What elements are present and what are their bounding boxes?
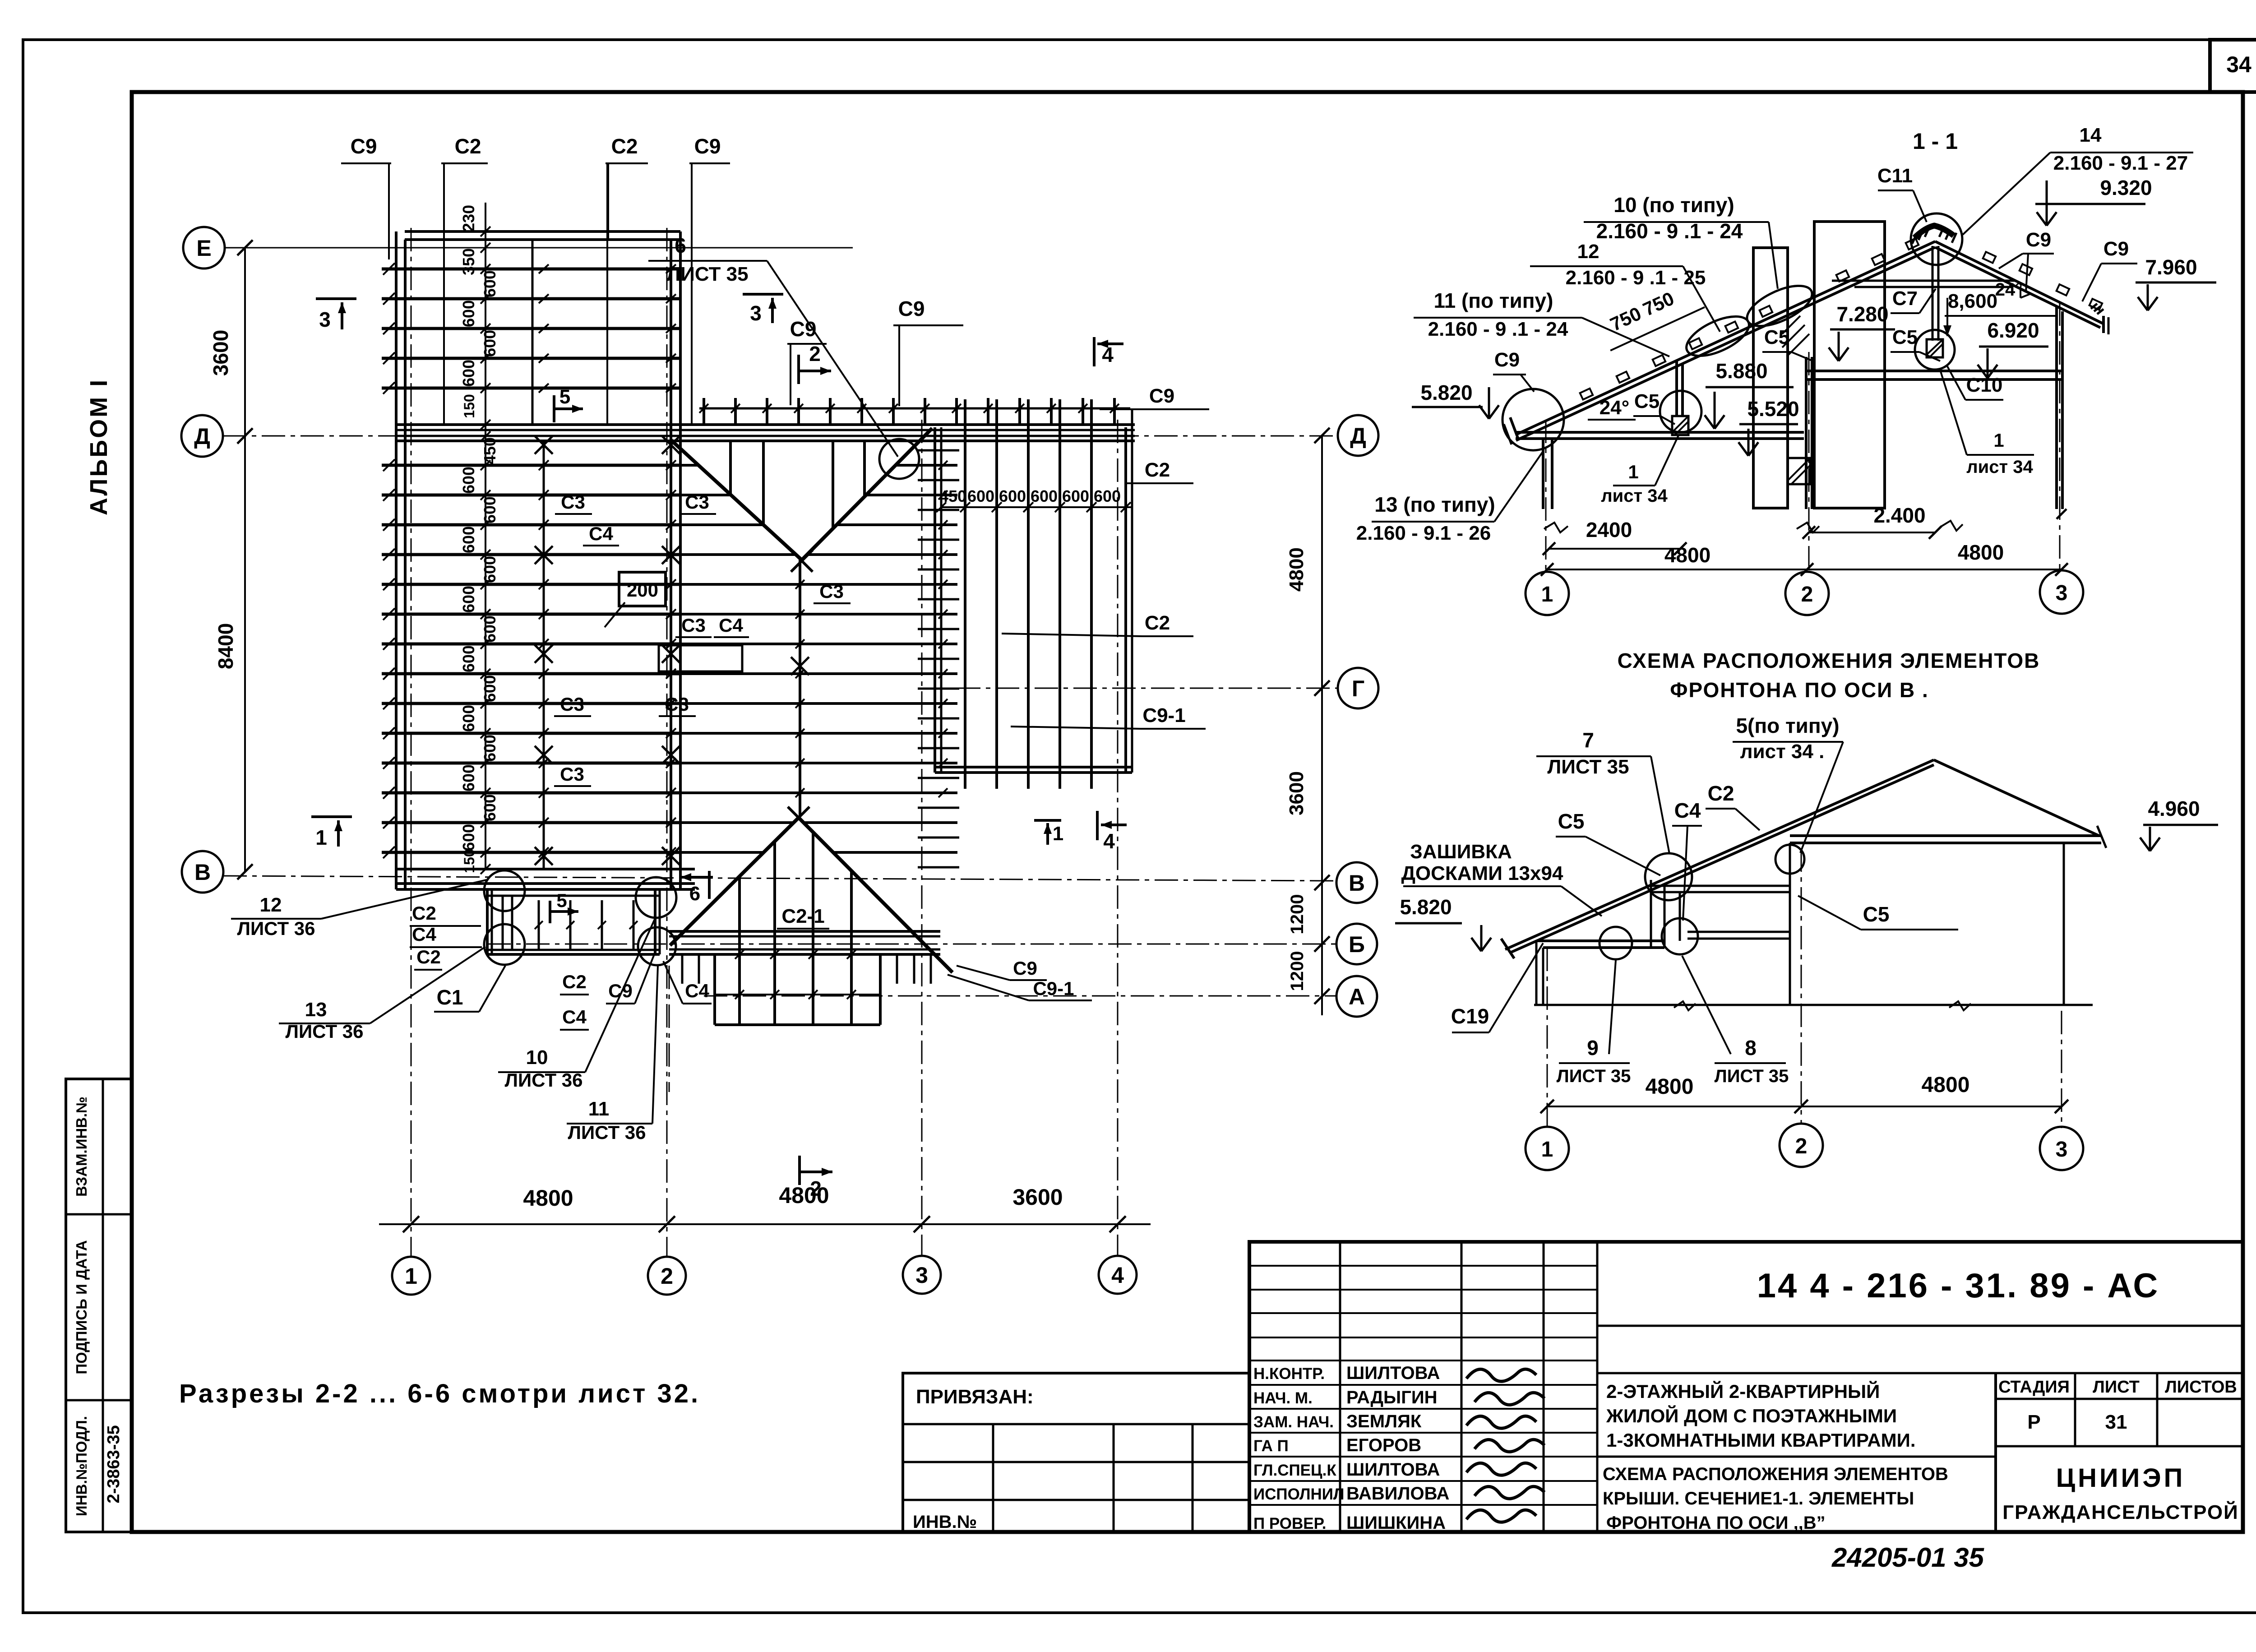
- svg-text:200: 200: [627, 579, 658, 601]
- elevation right wall: [2063, 843, 2065, 1005]
- title block TsNIIEP: [2002, 1463, 2239, 1523]
- svg-text:6: 6: [675, 234, 686, 257]
- svg-text:5: 5: [559, 386, 570, 408]
- svg-text:ЖИЛОЙ ДОМ С ПОЭТАЖНЫМИ: ЖИЛОЙ ДОМ С ПОЭТАЖНЫМИ: [1606, 1405, 1897, 1426]
- section axis 2 dash line: [1808, 352, 1810, 569]
- section dim 2.400 right: [1803, 504, 1942, 539]
- svg-text:4.960: 4.960: [2148, 797, 2200, 820]
- section ridge post: [1932, 246, 1934, 341]
- plan top label C2 right column: [606, 134, 648, 239]
- svg-text:11: 11: [588, 1098, 610, 1120]
- plan left block interior beam lines: [389, 163, 692, 869]
- plan small rectangle joist detail: [659, 645, 742, 671]
- title block main outline: [1249, 1242, 2243, 1532]
- plan section mark 2 upper: [799, 342, 831, 384]
- svg-text:350: 350: [459, 248, 478, 275]
- plan porch labels C2 C4 column: [410, 902, 482, 970]
- svg-text:С9: С9: [1013, 958, 1037, 979]
- section tall wall right of axis 2: [1814, 222, 1885, 508]
- svg-text:5(по типу): 5(по типу): [1736, 714, 1839, 737]
- section attic floor right part: [1806, 370, 2062, 372]
- section roof rafter left slope: [1516, 241, 1935, 435]
- plan eave overhang stubs above axis D: [699, 398, 1130, 425]
- section label C7: [1891, 287, 1936, 313]
- svg-text:С9-1: С9-1: [1142, 704, 1185, 727]
- elevation callout 5 po tipu list 34: [1733, 714, 1843, 853]
- section callout circle at peak C11: [1911, 213, 1962, 265]
- plan left block inner dimension chain 600 labels: [459, 203, 499, 874]
- section right slope fascia end: [2102, 316, 2105, 333]
- svg-text:лист 34: лист 34: [1601, 486, 1668, 506]
- svg-text:ГЛ.СПЕЦ.К: ГЛ.СПЕЦ.К: [1253, 1462, 1336, 1479]
- plan right wing bottom wall: [935, 766, 1132, 768]
- svg-text:ГРАЖДАНСЕЛЬСТРОЙ: ГРАЖДАНСЕЛЬСТРОЙ: [2002, 1500, 2239, 1523]
- svg-text:С3: С3: [560, 764, 584, 785]
- section label C5 right: [1891, 326, 1940, 361]
- svg-text:10 (по типу): 10 (по типу): [1613, 193, 1734, 217]
- axis circle V right: [1336, 862, 1377, 903]
- elevation axis 2 dash line: [1801, 848, 1802, 1124]
- section tie beam at 8.600: [1832, 280, 2016, 282]
- svg-text:С1: С1: [437, 986, 463, 1009]
- section axis circle 2: [1785, 572, 1829, 615]
- svg-text:3600: 3600: [1285, 771, 1308, 815]
- section label C9 left eave: [1493, 349, 1534, 392]
- svg-text:НАЧ. М.: НАЧ. М.: [1253, 1389, 1313, 1407]
- svg-text:600: 600: [999, 487, 1026, 505]
- section ground break marks: [1544, 509, 2066, 532]
- margin stamp table: [66, 1079, 132, 1532]
- svg-text:С9: С9: [351, 134, 377, 158]
- section callout circle at eave: [1502, 389, 1564, 450]
- svg-text:5.880: 5.880: [1715, 359, 1767, 383]
- svg-text:КРЫШИ. СЕЧЕНИЕ1-1. ЭЛЕМЕНТЫ: КРЫШИ. СЕЧЕНИЕ1-1. ЭЛЕМЕНТЫ: [1603, 1489, 1914, 1509]
- section callout 13 po tipu: [1356, 451, 1543, 544]
- axis circle 4 bottom: [1099, 1256, 1137, 1294]
- plan label C3 group: [554, 491, 851, 786]
- svg-text:600: 600: [459, 764, 478, 791]
- elevation label C19: [1451, 943, 1543, 1032]
- plan section mark 5 upper block: [554, 386, 583, 422]
- elevation callout circle upper: [1645, 853, 1692, 900]
- plan porch box below axis V: [487, 891, 660, 954]
- svg-text:СТАДИЯ: СТАДИЯ: [1998, 1378, 2070, 1397]
- axis circle D left: [181, 415, 223, 457]
- svg-text:4800: 4800: [779, 1183, 829, 1208]
- plan middle block joists horizontal: [680, 461, 957, 852]
- svg-text:3: 3: [2056, 1138, 2068, 1161]
- svg-text:С4: С4: [562, 1006, 587, 1027]
- plan valley apex x-mark: [791, 550, 813, 572]
- svg-text:С4: С4: [412, 924, 436, 945]
- svg-text:С5: С5: [1892, 326, 1918, 348]
- svg-text:4800: 4800: [1958, 541, 2004, 564]
- svg-text:3600: 3600: [1012, 1185, 1063, 1210]
- svg-text:С3: С3: [681, 615, 706, 636]
- svg-text:лист 34 .: лист 34 .: [1740, 740, 1825, 763]
- svg-text:Р: Р: [2027, 1411, 2040, 1433]
- svg-text:600: 600: [459, 645, 478, 672]
- plan label C9 at eave middle: [787, 317, 827, 405]
- section dim 2400 left: [1543, 518, 1687, 555]
- svg-text:24°: 24°: [1995, 280, 2023, 300]
- svg-text:9: 9: [1587, 1036, 1599, 1060]
- svg-text:С4: С4: [589, 523, 613, 544]
- svg-text:7: 7: [1582, 728, 1594, 752]
- axis circle 2 bottom: [648, 1257, 686, 1295]
- section hatch block at floor right: [1788, 458, 1810, 484]
- svg-text:600: 600: [1094, 487, 1121, 505]
- svg-text:С3: С3: [561, 491, 585, 513]
- axis circle 3 bottom: [903, 1256, 941, 1294]
- svg-text:С7: С7: [1892, 287, 1918, 310]
- svg-text:ЛИСТ 35: ЛИСТ 35: [666, 263, 748, 285]
- section label C5 left: [1633, 390, 1675, 424]
- plan callout circles at porch: [484, 870, 525, 911]
- svg-text:РАДЫГИН: РАДЫГИН: [1346, 1388, 1438, 1407]
- svg-text:150: 150: [461, 849, 477, 873]
- svg-text:150: 150: [461, 394, 477, 418]
- svg-text:230: 230: [459, 205, 478, 232]
- svg-text:4: 4: [1111, 1263, 1124, 1288]
- elevation callout circle left: [1600, 927, 1632, 959]
- section axis circle 1: [1526, 572, 1569, 615]
- svg-text:ВЗАМ.ИНВ.№: ВЗАМ.ИНВ.№: [73, 1097, 90, 1197]
- elevation lean-to ceiling line: [1536, 939, 1664, 942]
- elevation right eave end cap: [2097, 826, 2106, 848]
- plan section mark 1 left: [311, 817, 352, 849]
- svg-text:С2: С2: [1145, 612, 1170, 634]
- svg-text:7.280: 7.280: [1836, 302, 1888, 326]
- section dim 8.600: [1943, 290, 2057, 336]
- svg-text:С9: С9: [1149, 385, 1174, 407]
- svg-text:Н.КОНТР.: Н.КОНТР.: [1253, 1365, 1325, 1383]
- elevation callout circle right: [1775, 845, 1804, 874]
- svg-text:Д: Д: [1350, 423, 1366, 449]
- svg-text:600: 600: [481, 615, 499, 643]
- svg-text:ЛИСТ 36: ЛИСТ 36: [286, 1021, 364, 1042]
- elevation axis circle 2: [1780, 1124, 1823, 1167]
- elevation axis circle 3: [2040, 1127, 2083, 1170]
- svg-text:600: 600: [967, 487, 994, 505]
- plan porch labels row below: [560, 952, 712, 1030]
- section axis 3 dash line: [2059, 302, 2061, 569]
- svg-text:С5: С5: [1863, 902, 1890, 926]
- svg-text:34: 34: [2226, 52, 2251, 77]
- svg-text:П РОВЕР.: П РОВЕР.: [1253, 1515, 1326, 1532]
- axis circle A right: [1336, 976, 1377, 1017]
- svg-text:1: 1: [1053, 823, 1063, 845]
- svg-text:5.820: 5.820: [1400, 895, 1452, 919]
- plan callout 10 list 36: [498, 918, 655, 1091]
- svg-text:2.400: 2.400: [1873, 504, 1925, 527]
- plan top label C9 right column: [689, 134, 730, 239]
- plan right wing vertical rafters: [965, 399, 1091, 789]
- svg-text:2: 2: [661, 1263, 673, 1289]
- svg-text:1200: 1200: [1287, 894, 1307, 935]
- svg-text:600: 600: [481, 735, 499, 762]
- elevation axis 1 dash line: [1547, 948, 1548, 1128]
- svg-text:С9: С9: [898, 297, 925, 320]
- elevation label zashivka doskami: [1401, 841, 1602, 916]
- section ridge unit hatch detail: [1912, 226, 1956, 244]
- svg-text:ВАВИЛОВА: ВАВИЛОВА: [1346, 1484, 1449, 1504]
- plan callout 13 list 36: [279, 947, 485, 1042]
- svg-text:С9: С9: [608, 980, 633, 1001]
- plan central ridge line below valley: [799, 560, 801, 817]
- section label C5 mid: [1762, 326, 1813, 361]
- svg-text:1 - 1: 1 - 1: [1913, 129, 1958, 154]
- plan hip rafter bottom left diagonal: [670, 818, 799, 945]
- plan section mark 4 upper: [1094, 337, 1123, 366]
- plan section mark 3 left: [316, 299, 356, 331]
- plan section mark 6 porch: [680, 871, 713, 905]
- svg-text:11 (по типу): 11 (по типу): [1434, 289, 1553, 312]
- section label C9 right slope: [1999, 229, 2054, 292]
- svg-text:600: 600: [459, 824, 478, 851]
- svg-text:4800: 4800: [523, 1185, 573, 1211]
- section callout 11 po tipu: [1414, 289, 1669, 356]
- plan gable vertical rafters inside V: [730, 441, 864, 528]
- plan right dimension chain 4800 3600 1200 1200: [1285, 428, 1330, 1015]
- svg-text:600: 600: [481, 330, 499, 357]
- svg-text:600: 600: [1062, 487, 1089, 505]
- section right wall axis 3: [2055, 307, 2058, 509]
- svg-text:ЛИСТ 36: ЛИСТ 36: [568, 1122, 646, 1143]
- svg-text:А: А: [1349, 984, 1365, 1009]
- svg-text:2: 2: [1795, 1134, 1808, 1158]
- elevation callout circle lower mid: [1662, 918, 1698, 954]
- svg-text:ЛИСТ 35: ЛИСТ 35: [1557, 1066, 1631, 1086]
- svg-text:ЛИСТ 35: ЛИСТ 35: [1715, 1066, 1789, 1086]
- plan section mark 11 lower: [1034, 820, 1063, 845]
- svg-text:6: 6: [689, 883, 700, 905]
- elevation left roof slope: [1505, 760, 1934, 949]
- svg-text:6.920: 6.920: [1987, 319, 2039, 342]
- elevation right roof slope: [1934, 760, 2099, 836]
- section callout 14: [1963, 124, 2193, 235]
- svg-text:31: 31: [2105, 1411, 2127, 1433]
- svg-text:С3: С3: [665, 694, 689, 715]
- plan valley rafter left diagonal: [671, 440, 802, 560]
- svg-text:С3: С3: [819, 581, 844, 602]
- plan left block rafters horizontal: [382, 263, 680, 858]
- elevation axis circle 1: [1526, 1127, 1569, 1170]
- plan wall strip ladder stubs: [918, 450, 959, 867]
- svg-text:С2: С2: [455, 134, 481, 158]
- svg-text:2-3863-35: 2-3863-35: [104, 1425, 123, 1503]
- plan bottom dimension line 4800 4800 3600: [379, 1183, 1151, 1232]
- svg-text:С3: С3: [560, 694, 584, 715]
- section label C10: [1947, 366, 2003, 400]
- title block privyazan table: [903, 1373, 1249, 1532]
- svg-text:АЛЬБОМ I: АЛЬБОМ I: [85, 378, 112, 515]
- svg-text:С2: С2: [562, 971, 587, 992]
- svg-text:В: В: [194, 860, 211, 885]
- plan callout 11 list 36: [567, 966, 658, 1143]
- plan axis line 1 vertical: [411, 228, 412, 1257]
- section eave fascia left: [1510, 417, 1518, 439]
- svg-text:Д: Д: [194, 424, 210, 449]
- svg-text:9.320: 9.320: [2100, 176, 2152, 199]
- svg-text:ЛИСТ 36: ЛИСТ 36: [237, 918, 315, 939]
- svg-text:В: В: [1349, 870, 1365, 896]
- elevation ground break marks: [1674, 1001, 1696, 1010]
- section dim 4800 left: [1541, 543, 1813, 576]
- svg-text:600: 600: [459, 526, 478, 553]
- svg-text:13: 13: [305, 999, 327, 1021]
- section ridge post footing hatched: [1927, 339, 1943, 357]
- section dim 750 750 along slope: [1597, 277, 1705, 350]
- axis circle G right: [1338, 668, 1378, 708]
- sheet number box 34: [2210, 40, 2256, 92]
- svg-text:ИНВ.№ПОДЛ.: ИНВ.№ПОДЛ.: [73, 1416, 90, 1516]
- svg-text:10: 10: [526, 1046, 548, 1069]
- svg-text:2-ЭТАЖНЫЙ 2-КВАРТИРНЫЙ: 2-ЭТАЖНЫЙ 2-КВАРТИРНЫЙ: [1606, 1380, 1880, 1402]
- svg-text:ДОСКАМИ 13х94: ДОСКАМИ 13х94: [1401, 862, 1563, 884]
- section dim 4800 right: [1807, 541, 2068, 576]
- svg-text:600: 600: [459, 300, 478, 327]
- plan axis line G horizontal: [918, 688, 1338, 689]
- svg-text:2: 2: [809, 342, 821, 366]
- section label C11: [1877, 165, 1927, 222]
- axis circle E left: [183, 227, 225, 268]
- plan hip rafter bottom right diagonal: [799, 818, 952, 972]
- svg-text:7.960: 7.960: [2145, 255, 2197, 279]
- elevation label C5 left: [1556, 810, 1660, 875]
- elevation callout 8 list 35: [1682, 956, 1789, 1086]
- elevation dimension line 4800 4800: [1540, 1073, 2068, 1113]
- svg-text:600: 600: [1031, 487, 1058, 505]
- section hatch wedge at wall top: [1782, 316, 1809, 356]
- svg-text:1: 1: [1993, 430, 2004, 451]
- svg-text:4800: 4800: [1922, 1073, 1970, 1097]
- section callout circle at post: [1660, 391, 1701, 432]
- svg-text:3: 3: [319, 308, 331, 331]
- plan wall on axis V bottom of left block: [396, 868, 695, 870]
- plan valley rafter right diagonal: [802, 428, 932, 560]
- svg-text:4800: 4800: [1646, 1075, 1694, 1099]
- plan axis line 4 vertical: [1117, 420, 1119, 1257]
- axis circle D right: [1338, 415, 1378, 456]
- svg-text:5.820: 5.820: [1420, 381, 1472, 404]
- plan lower eave stubs: [682, 954, 931, 984]
- svg-text:600: 600: [459, 586, 478, 613]
- plan axis line E horizontal: [225, 247, 853, 249]
- svg-text:ЛИСТОВ: ЛИСТОВ: [2165, 1378, 2237, 1397]
- svg-text:Г: Г: [1352, 676, 1364, 701]
- svg-text:С11: С11: [1877, 165, 1913, 187]
- svg-text:600: 600: [459, 705, 478, 732]
- section axis 2 wall: [1805, 357, 1808, 509]
- title block description lower: [1603, 1464, 1948, 1533]
- section tall wall left of axis 2: [1753, 248, 1788, 508]
- plan right wing left wall: [934, 427, 936, 773]
- svg-text:600: 600: [481, 675, 499, 702]
- title block names rows: [1253, 1363, 1449, 1533]
- section callout oval on slope 12: [1681, 308, 1755, 364]
- svg-text:ЗЕМЛЯК: ЗЕМЛЯК: [1346, 1411, 1422, 1431]
- svg-text:600: 600: [459, 360, 478, 387]
- plan axis line 3 vertical: [921, 420, 923, 1257]
- svg-text:ЛИСТ 35: ЛИСТ 35: [1547, 756, 1629, 778]
- plan wall on axis B band: [669, 930, 940, 933]
- plan section mark 4 lower: [1097, 811, 1127, 853]
- svg-text:ЛИСТ 36: ЛИСТ 36: [505, 1069, 583, 1091]
- title block signature columns: [1249, 1242, 1597, 1532]
- svg-text:2400: 2400: [1586, 518, 1632, 541]
- svg-text:ИНВ.№: ИНВ.№: [913, 1512, 977, 1532]
- svg-text:С3: С3: [685, 491, 709, 513]
- svg-text:СХЕМА РАСПОЛОЖЕНИЯ ЭЛЕМЕНТОВ: СХЕМА РАСПОЛОЖЕНИЯ ЭЛЕМЕНТОВ: [1603, 1464, 1948, 1484]
- svg-text:Б: Б: [1349, 932, 1365, 957]
- svg-text:С9: С9: [2103, 238, 2129, 260]
- svg-text:С2: С2: [412, 902, 436, 924]
- svg-text:1: 1: [405, 1263, 417, 1289]
- svg-text:2: 2: [1801, 583, 1813, 606]
- svg-text:Разрезы 2-2 ... 6-6 смотри: Разрезы 2-2 ... 6-6 смотри лист 32.: [179, 1379, 700, 1408]
- elevation label C5 right: [1798, 896, 1958, 930]
- plan top label C2 left column: [441, 134, 488, 239]
- section floor beam left part: [1516, 431, 1804, 434]
- svg-text:С4: С4: [685, 980, 709, 1001]
- svg-text:С4: С4: [719, 615, 743, 636]
- svg-text:24°: 24°: [1600, 397, 1630, 419]
- plan detail box 200: [605, 572, 666, 627]
- plan axis line A horizontal: [704, 995, 1337, 997]
- svg-text:2.160 - 9.1 - 27: 2.160 - 9.1 - 27: [2053, 152, 2188, 174]
- svg-text:С5: С5: [1558, 810, 1585, 833]
- svg-text:600: 600: [481, 556, 499, 583]
- title block signatures scribbles: [1466, 1369, 1544, 1522]
- section callout 10 po tipu: [1584, 193, 1778, 289]
- plan axis line 2 vertical: [666, 228, 668, 1257]
- svg-text:1200: 1200: [1287, 951, 1307, 991]
- svg-text:С5: С5: [1764, 326, 1789, 348]
- svg-text:3: 3: [750, 301, 762, 325]
- svg-text:ПРИВЯЗАН:: ПРИВЯЗАН:: [916, 1386, 1034, 1408]
- svg-text:С9: С9: [2026, 229, 2051, 251]
- plan label C1: [434, 966, 505, 1012]
- svg-text:ЛИСТ: ЛИСТ: [2093, 1378, 2140, 1397]
- svg-text:1-3КОМНАТНЫМИ КВАРТИРАМИ.: 1-3КОМНАТНЫМИ КВАРТИРАМИ.: [1606, 1430, 1916, 1451]
- svg-text:С19: С19: [1451, 1004, 1489, 1028]
- plan axis line D horizontal: [223, 435, 1338, 437]
- plan callout 12 list 36: [231, 880, 486, 939]
- section axis circle 3: [2040, 570, 2083, 614]
- title block description upper: [1597, 1380, 1996, 1457]
- elevation axis 3 dash line: [2061, 1011, 2062, 1128]
- section angle label 24: [1588, 397, 1636, 420]
- plan lower wing outline: [715, 954, 880, 1025]
- plan right wing dimension row 450 600x5: [936, 487, 1132, 512]
- svg-text:3600: 3600: [209, 330, 232, 376]
- svg-text:ГА П: ГА П: [1253, 1437, 1289, 1455]
- svg-text:1: 1: [315, 826, 327, 849]
- svg-text:С5: С5: [1634, 390, 1660, 412]
- svg-text:2.160 - 9 .1 - 24: 2.160 - 9 .1 - 24: [1428, 318, 1568, 340]
- elevation label C4: [1672, 799, 1702, 921]
- elevation callout 9 list 35: [1557, 960, 1631, 1086]
- plan axis line V horizontal: [223, 876, 1337, 881]
- svg-text:13 (по типу): 13 (по типу): [1374, 493, 1495, 516]
- svg-text:5.520: 5.520: [1747, 397, 1799, 421]
- svg-text:2: 2: [810, 1177, 822, 1200]
- svg-text:Е: Е: [196, 236, 211, 261]
- svg-text:С2-1: С2-1: [781, 905, 824, 927]
- svg-text:8,600: 8,600: [1948, 290, 1997, 312]
- svg-text:С9-1: С9-1: [1033, 978, 1074, 999]
